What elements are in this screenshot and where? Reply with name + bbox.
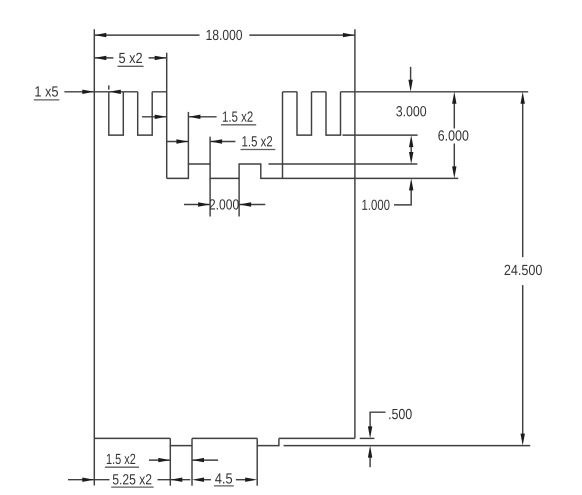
- dimension .500: lower up arrow: [368, 446, 372, 468]
- part outline: drop edge at x=5 with extension up: [166, 53, 168, 179]
- extension line: bottom x=11.25 extended down: [256, 446, 258, 486]
- extension line: x=10 extended down: [238, 178, 240, 216]
- dimension 1.5 x2 bottom: text with underline: [105, 454, 139, 468]
- part outline: left comb slot 1: [109, 92, 124, 135]
- part outline: left comb slot 2: [138, 92, 153, 135]
- extension line: y=6 shelf level extended right: [283, 177, 459, 179]
- dimension 1.000: text: [362, 200, 389, 210]
- extension line: bottom x=5.25 extended down: [169, 446, 171, 486]
- dimension 6.000: line and arrows: [452, 92, 456, 179]
- dimension 2.000: text: [210, 199, 239, 209]
- dimension 4.5: right arrow: [236, 478, 257, 482]
- dimension 2.000: arrows: [184, 202, 265, 206]
- dimension 18.000: text: [207, 30, 243, 40]
- part outline: right comb slot 2: [326, 92, 341, 135]
- dimension 4.5: left arrow: [192, 478, 211, 482]
- dimension 1.5 x2 bottom: arrows: [149, 458, 218, 462]
- dimension 24.500: line and arrows: [521, 92, 525, 446]
- dimension 1.5 x2 upper: arrows and leader: [142, 115, 217, 119]
- dimension .500: text: [389, 409, 411, 419]
- dimension 6.000: text: [438, 130, 468, 140]
- part outline: bottom slot 2: [257, 438, 279, 445]
- dimension 1.5 x2 lower: text with underline: [241, 136, 276, 149]
- dimension 5 x2: line and arrows: [94, 56, 166, 60]
- part outline: bottom slot 1: [170, 438, 192, 445]
- extension line: bottom x=6.75 extended down: [191, 446, 193, 486]
- extension line: bottom y=24.5 extended right: [284, 445, 531, 447]
- extension line: slot depth level y=3 extended right: [343, 134, 418, 136]
- part outline: top edge left comb segments: [94, 91, 166, 93]
- dimension 1.000: elbow leader and up arrow: [394, 178, 413, 205]
- dimension 5 x2: text with underline: [118, 53, 144, 67]
- dimension 1 x5: leader and arrows: [64, 85, 123, 94]
- part outline: mid shelf profile: [167, 164, 283, 178]
- dimension 3.000: top arrow: [408, 67, 412, 92]
- dimension .500: elbow leader and down arrow: [368, 412, 386, 438]
- dimension 1.5 x2 lower: arrows and leader: [167, 139, 236, 143]
- extension line: x=6.5 extended up: [187, 112, 189, 164]
- part outline: left edge with extensions above and below: [93, 29, 95, 485]
- dimension 1 x5: text with underline: [34, 86, 60, 100]
- extension line: top edge extended right: [355, 91, 528, 93]
- dimension 1.5 x2 upper: text with underline: [221, 111, 256, 124]
- dimension .500: short tick at y=24 level: [360, 437, 375, 439]
- dimension 5.25 x2: text with underline: [111, 474, 153, 487]
- dimension 18.000: line and arrows: [94, 33, 355, 37]
- part outline: right edge with extension up to 18.000 dimension: [354, 29, 356, 438]
- dimension 5.25 x2: left arrow and line: [68, 478, 110, 482]
- dimension 3.000: text: [396, 106, 426, 116]
- dimension 3.000 and 1.000: double arrow between y=3 and y=5: [409, 135, 413, 164]
- extension line: x=8 extended up and down: [209, 137, 211, 217]
- part outline: right comb top segments: [283, 91, 355, 93]
- part outline: right comb left edge: [282, 92, 284, 179]
- extension line: y=5 level extended right: [269, 163, 418, 165]
- dimension 24.500: text: [505, 265, 542, 275]
- dimension 4.5: text with underline: [214, 473, 234, 486]
- part outline: right comb slot 1: [297, 92, 312, 135]
- part outline: bottom edge segments: [94, 437, 355, 439]
- dimension 5.25 x2: right arrow: [158, 478, 191, 482]
